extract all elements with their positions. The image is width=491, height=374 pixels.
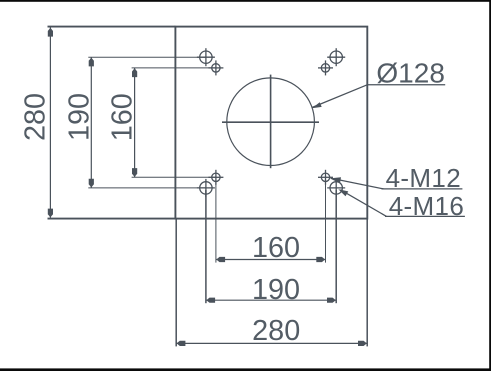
dimension 190 bottom line [206, 190, 336, 303]
svg-text:280: 280 [252, 315, 300, 347]
dimension 280 left line [48, 28, 53, 218]
hole M12 bottom-right [318, 170, 333, 185]
hole M12 top-left [208, 60, 223, 75]
svg-text:190: 190 [64, 93, 96, 141]
dimension 160 left line [132, 68, 216, 177]
border right [489, 0, 491, 371]
wire circle centerline horizontal [222, 121, 319, 123]
svg-text:160: 160 [252, 232, 300, 264]
wire top extension line [48, 26, 176, 28]
plate outline [175, 27, 367, 219]
wire bottom extension line [48, 218, 176, 220]
hole M16 bottom-left [197, 179, 215, 197]
svg-text:160: 160 [106, 93, 138, 141]
hole M16 top-left [197, 48, 215, 66]
hole M16 top-right [327, 48, 345, 66]
label D128 leader [312, 85, 445, 109]
hole M12 top-right [318, 60, 333, 75]
svg-text:4-M12: 4-M12 [386, 163, 461, 193]
label 4-M12 leader [330, 177, 463, 189]
svg-text:280: 280 [20, 93, 52, 141]
hole M12 bottom-left [208, 170, 223, 185]
center hole circle D128 [227, 78, 315, 166]
svg-text:Ø128: Ø128 [376, 58, 445, 89]
svg-text:4-M16: 4-M16 [389, 191, 464, 221]
wire circle centerline vertical [270, 75, 272, 169]
border bottom [0, 368, 491, 371]
dimension 160 bottom line [216, 180, 326, 263]
hole M16 bottom-right [327, 179, 345, 197]
label 4-M16 leader [338, 189, 465, 216]
dimension 280 bottom line [176, 220, 367, 347]
border top [0, 0, 491, 2]
svg-text:190: 190 [252, 274, 300, 306]
dimension 190 left line [88, 57, 206, 188]
